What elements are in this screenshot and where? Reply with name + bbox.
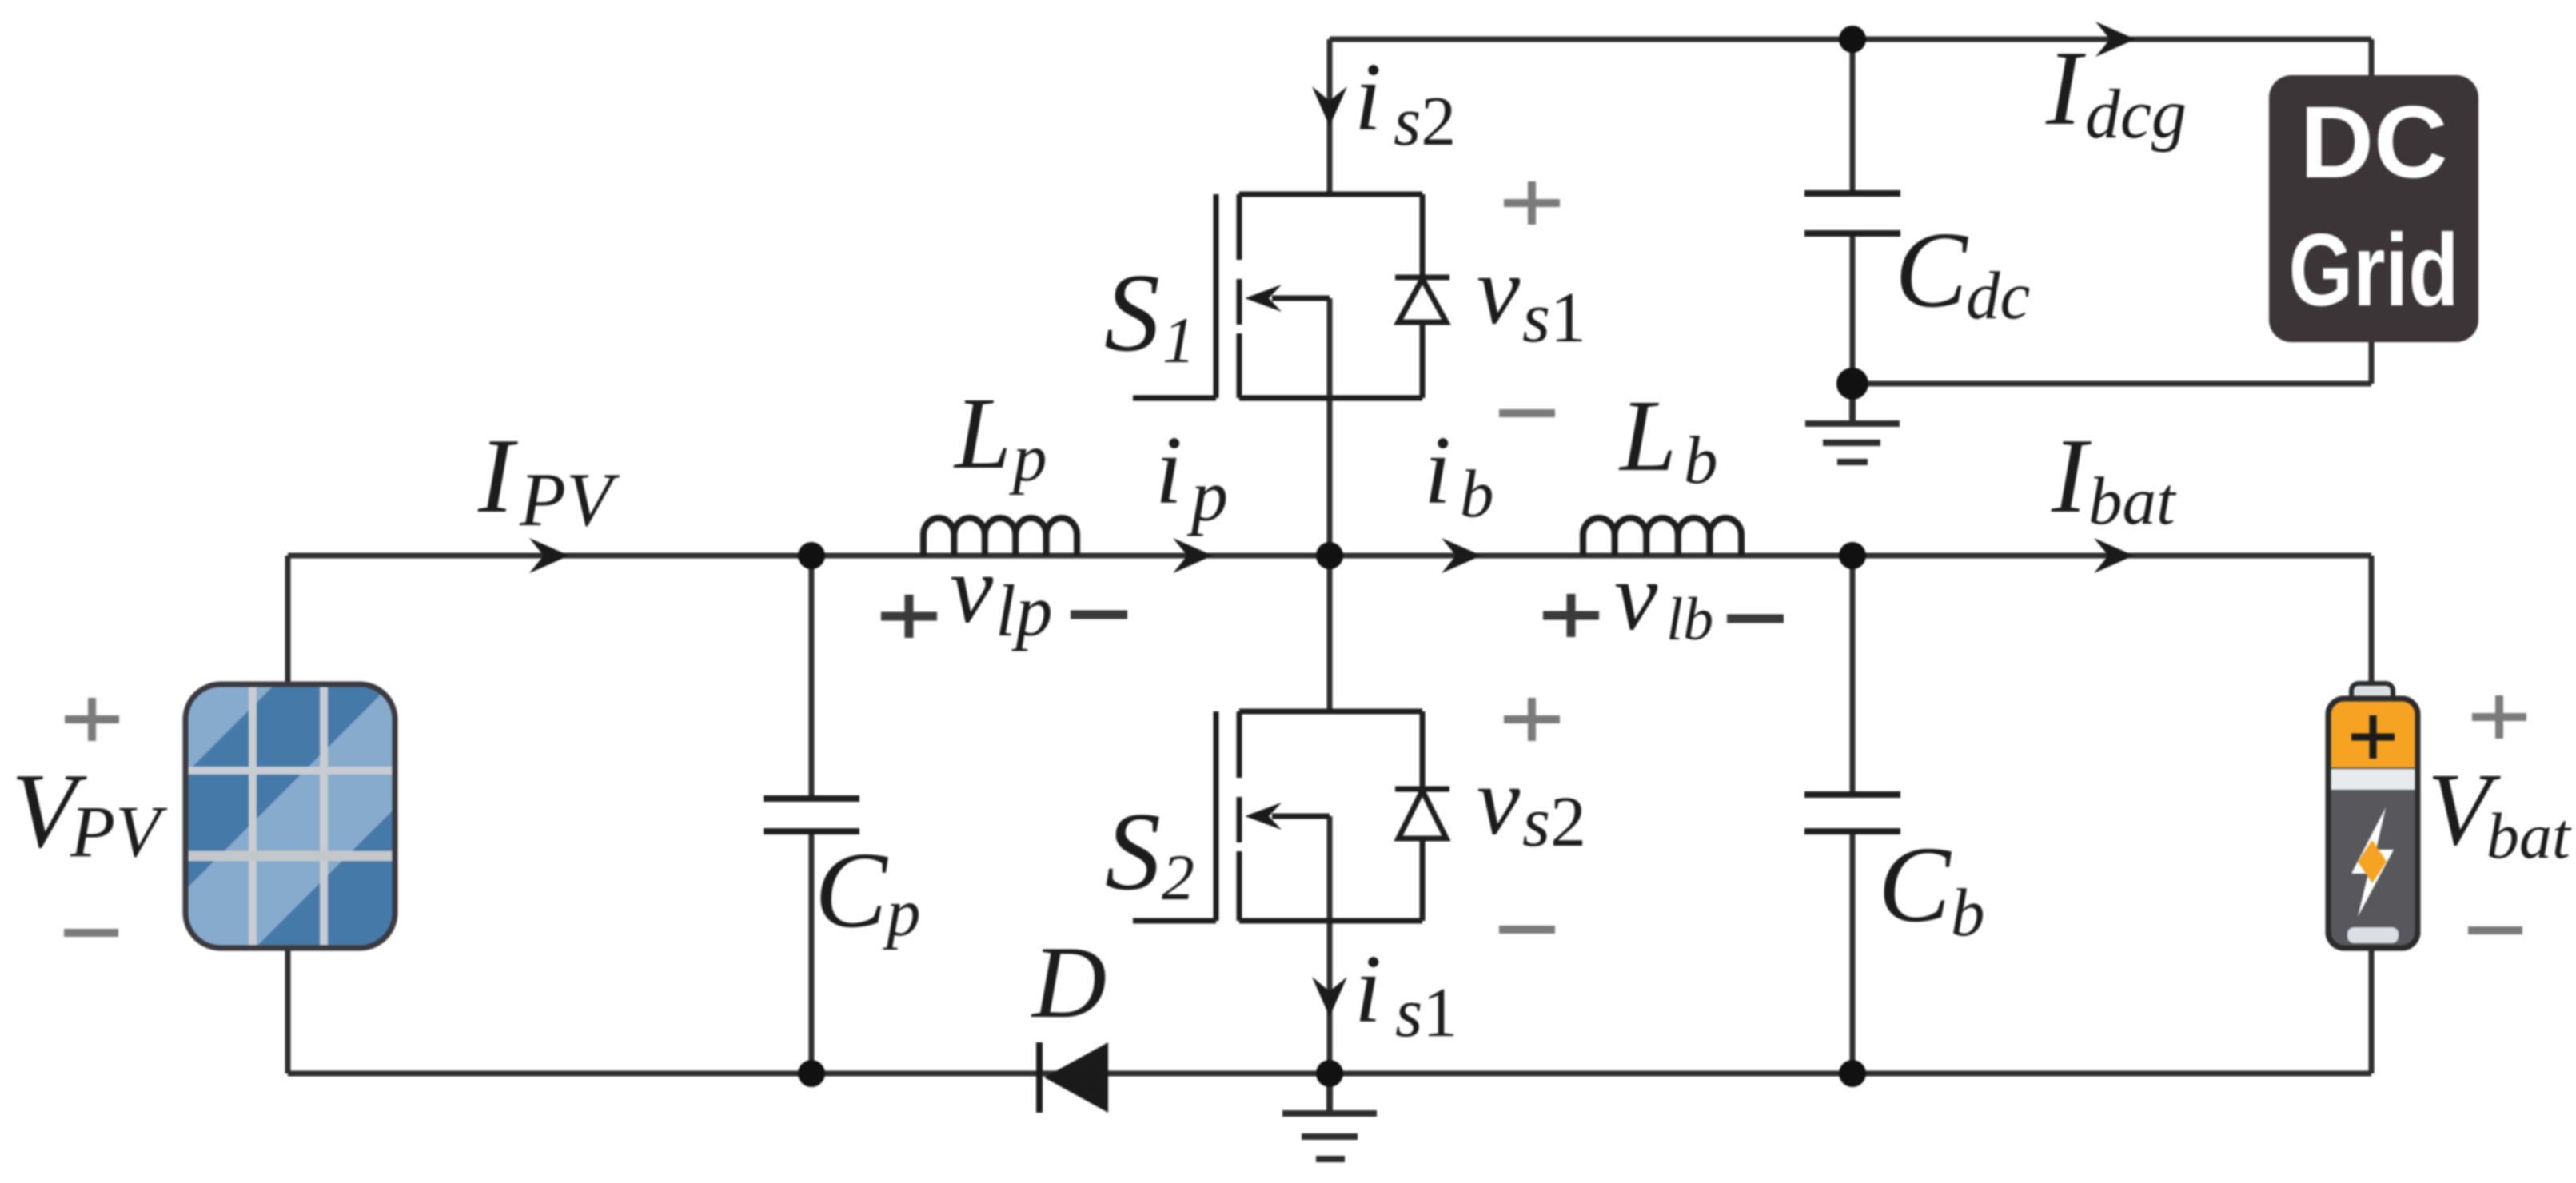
svg-text:L: L (1618, 379, 1677, 492)
wire: right column above battery (2369, 556, 2375, 689)
svg-text:S: S (1105, 790, 1161, 914)
arrow IPV (529, 538, 569, 573)
node Cp-main (798, 542, 825, 569)
svg-text:b: b (1460, 456, 1494, 532)
node Cb-main (1839, 542, 1866, 569)
minus Vbat (2468, 926, 2522, 934)
svg-text:PV: PV (519, 457, 620, 542)
plus VPV (65, 698, 119, 741)
svg-text:I: I (477, 416, 518, 535)
minus vs1 (1499, 409, 1555, 417)
transistor S2 (1133, 711, 1422, 921)
inductor Lp (923, 518, 1077, 556)
minus vs2 (1499, 926, 1555, 934)
diode D (1036, 1042, 1043, 1113)
svg-text:C: C (1895, 210, 1968, 330)
svg-text:b: b (1684, 423, 1718, 498)
transistor S1 (1133, 194, 1422, 398)
minus vlb (1727, 615, 1784, 623)
wire: bottom bus (288, 1071, 2371, 1077)
svg-text:v: v (1477, 747, 1521, 855)
svg-text:I: I (2045, 29, 2086, 147)
minus VPV (64, 929, 118, 937)
wire: center column top (is2) (1327, 39, 1333, 194)
svg-text:L: L (953, 376, 1011, 490)
wire: Cb top lead (1850, 556, 1856, 795)
svg-text:dc: dc (1966, 258, 2030, 333)
svg-text:bat: bat (2088, 464, 2177, 539)
svg-text:1: 1 (1162, 304, 1195, 376)
minus vlp (1071, 611, 1127, 619)
svg-text:2: 2 (1162, 841, 1194, 914)
svg-text:i: i (1354, 935, 1382, 1043)
svg-text:I: I (2051, 416, 2092, 535)
diode body S1 (1395, 194, 1449, 398)
battery (2328, 683, 2418, 948)
wire: Cdc bottom lead (1850, 233, 1856, 384)
DC grid box (2269, 75, 2478, 342)
wire: Cp top lead (809, 556, 815, 799)
node Cdc-top (1839, 26, 1866, 53)
svg-text:i: i (1155, 416, 1182, 524)
arrow Ibat (2094, 538, 2134, 573)
wire: left column above PV (285, 556, 291, 687)
plus Vbat (2472, 695, 2526, 739)
svg-text:PV: PV (70, 791, 168, 872)
node center-main (1316, 542, 1343, 569)
plus vlb (1543, 594, 1599, 637)
node Cp-bottom (798, 1060, 825, 1087)
wire: left column below PV (285, 945, 291, 1073)
svg-text:D: D (1031, 925, 1107, 1039)
svg-text:s1: s1 (1522, 278, 1586, 357)
wire: right column below battery (2369, 945, 2375, 1073)
svg-text:bat: bat (2486, 799, 2572, 872)
svg-text:b: b (1951, 875, 1985, 950)
PV panel (185, 684, 395, 948)
svg-text:i: i (1424, 416, 1451, 524)
svg-text:C: C (815, 830, 888, 950)
wire: Cdc top lead (1850, 39, 1856, 193)
diode body S2 (1395, 711, 1449, 921)
svg-text:p: p (883, 875, 921, 950)
svg-text:v: v (1477, 237, 1521, 345)
capacitor Cdc (1804, 193, 1900, 233)
svg-text:Grid: Grid (2289, 213, 2459, 328)
arrow ip (1173, 538, 1213, 573)
svg-text:S: S (1104, 251, 1160, 375)
svg-text:i: i (1354, 43, 1382, 151)
node Cdc-bottom (1836, 368, 1868, 400)
svg-text:s2: s2 (1394, 83, 1456, 161)
svg-text:DC: DC (2300, 86, 2448, 200)
arrow is1 (1312, 977, 1347, 1017)
ground center (1282, 1073, 1377, 1159)
arrow ib (1442, 538, 1481, 573)
wire: DC grid bottom drop (2369, 341, 2375, 384)
wire: main middle horizontal bus (288, 553, 2371, 559)
svg-text:dcg: dcg (2085, 76, 2187, 153)
plus vs2 (1504, 698, 1560, 741)
wire: Cb bottom lead (1850, 831, 1856, 1073)
plus vlp (881, 595, 937, 638)
plus vs1 (1504, 181, 1560, 225)
ground Cdc (1805, 384, 1900, 462)
svg-text:p: p (1009, 420, 1047, 496)
wire: top bus (1330, 37, 2371, 42)
inductor Lb (1583, 518, 1741, 556)
wire: DC grid bottom return (1852, 381, 2371, 387)
svg-text:v: v (950, 536, 994, 643)
node center-bottom (1316, 1060, 1343, 1087)
wire: center column S2 source to bottom (1327, 816, 1333, 1073)
svg-text:p: p (1186, 455, 1228, 536)
wire: top bus drop into DC grid (2369, 39, 2375, 78)
arrow Idcg (2095, 22, 2135, 57)
wire: Cp bottom lead (809, 831, 815, 1073)
svg-text:lp: lp (995, 570, 1053, 651)
svg-text:s1: s1 (1395, 974, 1457, 1052)
svg-text:v: v (1614, 543, 1658, 651)
svg-text:C: C (1878, 825, 1952, 945)
svg-text:lb: lb (1666, 586, 1713, 653)
svg-text:s2: s2 (1522, 783, 1586, 862)
arrow is2 (1312, 86, 1347, 126)
wire: center column S1 source to S2 drain (1327, 298, 1333, 711)
capacitor Cb (1804, 795, 1900, 831)
node Cb-bottom (1839, 1060, 1866, 1087)
capacitor Cp (764, 799, 859, 831)
